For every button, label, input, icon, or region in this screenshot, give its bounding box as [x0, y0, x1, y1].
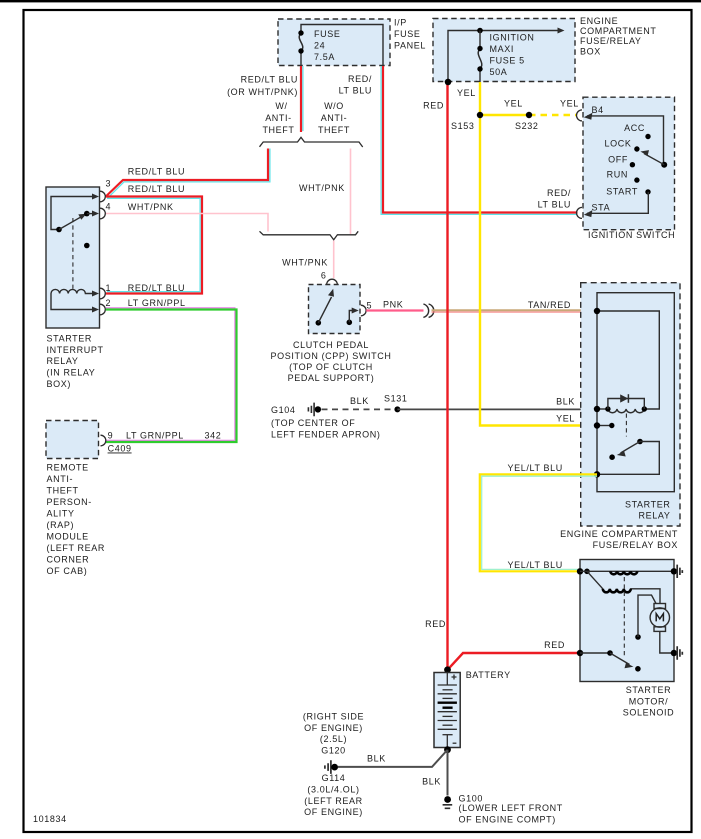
- svg-text:C409: C409: [108, 444, 132, 454]
- wire PNK pin5 to inline connector: [366, 309, 423, 311]
- relay BLK stub: [597, 408, 608, 410]
- svg-text:ANTI-: ANTI-: [47, 474, 74, 484]
- svg-text:ANTI-: ANTI-: [321, 113, 348, 123]
- B4 feed wire: [587, 116, 664, 162]
- wire LT GRN/PPL pin2 to RAP pin9: [106, 308, 235, 441]
- node S153 (yellow tap): [480, 114, 529, 116]
- battery: [444, 666, 451, 673]
- wire BLK battery to G100: [447, 750, 449, 796]
- top page rule: [0, 0, 701, 2]
- wire WHT/PNK w/o branch: [350, 149, 352, 235]
- internal feed wire with arrow: [448, 31, 560, 83]
- svg-text:STARTER: STARTER: [625, 500, 671, 510]
- wire YEL fuse5 to starter relay: [480, 82, 597, 426]
- node S153 top (red exit): [445, 79, 451, 85]
- svg-text:PNK: PNK: [383, 300, 403, 310]
- relay output path: [597, 442, 659, 475]
- CPP pin5 contact: [347, 320, 353, 326]
- svg-text:LEFT FENDER APRON): LEFT FENDER APRON): [271, 430, 381, 440]
- svg-text:B4: B4: [592, 105, 604, 115]
- svg-text:FUSE/RELAY: FUSE/RELAY: [580, 36, 642, 46]
- RAP module box: [46, 421, 99, 459]
- START to STA wire: [587, 192, 648, 213]
- svg-text:STARTER: STARTER: [47, 333, 93, 343]
- svg-text:MAXI: MAXI: [490, 44, 514, 54]
- stray contact node: [84, 243, 90, 249]
- svg-text:COMPARTMENT: COMPARTMENT: [580, 26, 657, 36]
- solenoid contact wire to motor: [635, 634, 641, 640]
- svg-text:FUSE: FUSE: [394, 29, 420, 39]
- svg-text:RED: RED: [425, 619, 446, 629]
- fuse 24 leads: [301, 25, 383, 66]
- svg-text:(LEFT REAR: (LEFT REAR: [304, 796, 363, 806]
- svg-text:STA: STA: [592, 203, 611, 213]
- svg-text:SOLENOID: SOLENOID: [623, 708, 674, 718]
- svg-text:RED/LT BLU: RED/LT BLU: [128, 283, 185, 293]
- relay movable arm: [56, 227, 62, 233]
- svg-text:LOCK: LOCK: [605, 139, 632, 149]
- wire BLK S131 to starter relay: [397, 408, 597, 410]
- svg-text:RED/LT BLU: RED/LT BLU: [241, 75, 298, 85]
- svg-text:G120: G120: [321, 745, 346, 755]
- svg-text:RED: RED: [423, 100, 444, 110]
- position RUN: [634, 177, 639, 182]
- svg-text:OF CAB): OF CAB): [47, 566, 88, 576]
- svg-text:2: 2: [106, 298, 112, 308]
- wire RED fuse24 to brace (RED/LT BLU): [302, 66, 304, 131]
- svg-text:FUSE: FUSE: [314, 29, 340, 39]
- wire RED fuse panel right to STA (RED/ LT BLU): [381, 66, 577, 214]
- svg-text:PANEL: PANEL: [394, 41, 426, 51]
- svg-text:BLK: BLK: [556, 397, 575, 407]
- svg-text:ENGINE COMPARTMENT: ENGINE COMPARTMENT: [560, 529, 678, 539]
- svg-text:RED/LT BLU: RED/LT BLU: [128, 167, 185, 177]
- relay feed TAN/RED path: [597, 311, 659, 409]
- svg-text:IGNITION: IGNITION: [490, 32, 535, 42]
- svg-text:(IN RELAY: (IN RELAY: [47, 368, 96, 378]
- starter interrupt relay box: [46, 187, 100, 328]
- case ground top: [677, 565, 682, 578]
- svg-text:PERSON-: PERSON-: [47, 497, 92, 507]
- ignition switch box: [583, 97, 675, 230]
- svg-text:S153: S153: [451, 121, 475, 131]
- battery plus: [452, 675, 457, 680]
- position START: [645, 189, 650, 194]
- wire RED S153 to battery and starter: [448, 82, 579, 670]
- svg-text:CORNER: CORNER: [47, 554, 90, 564]
- relay coil: [51, 289, 96, 293]
- svg-text:YEL/LT BLU: YEL/LT BLU: [508, 560, 563, 570]
- svg-text:S131: S131: [384, 394, 408, 404]
- svg-text:YEL: YEL: [560, 99, 579, 109]
- starter relay box: [597, 293, 674, 492]
- motor M: [654, 604, 666, 609]
- svg-text:S232: S232: [515, 121, 539, 131]
- relay mechanical link: [625, 414, 627, 437]
- ground G114/G120: [325, 760, 331, 774]
- node: red exit of fuse box: [445, 79, 451, 85]
- svg-text:(OR WHT/PNK): (OR WHT/PNK): [227, 87, 298, 97]
- node S131: [394, 406, 400, 412]
- svg-text:(TOP OF CLUTCH: (TOP OF CLUTCH: [289, 362, 373, 372]
- svg-text:POSITION (CPP) SWITCH: POSITION (CPP) SWITCH: [270, 351, 391, 361]
- svg-text:BOX: BOX: [580, 46, 601, 56]
- svg-text:MOTOR/: MOTOR/: [629, 696, 669, 706]
- CPP switch arm: [316, 320, 322, 326]
- relay YEL stub: [597, 425, 612, 427]
- wire RED w/anti-theft branch to relay pin 3: [108, 149, 270, 199]
- svg-text:(LEFT REAR: (LEFT REAR: [47, 543, 106, 553]
- svg-text:OF ENGINE): OF ENGINE): [304, 723, 363, 733]
- svg-text:3: 3: [106, 179, 112, 189]
- pin 9 connector: [101, 435, 106, 446]
- svg-text:FUSE/RELAY BOX: FUSE/RELAY BOX: [593, 540, 678, 550]
- engine compartment fuse/relay box (top): [433, 19, 575, 82]
- junction on feed: [477, 28, 483, 34]
- fuse 5 leads: [479, 31, 481, 83]
- pin 4 connector: [100, 208, 105, 219]
- svg-text:(LOWER LEFT FRONT: (LOWER LEFT FRONT: [459, 803, 563, 813]
- svg-text:BOX): BOX): [47, 379, 71, 389]
- svg-text:101834: 101834: [33, 814, 67, 824]
- svg-text:BATTERY: BATTERY: [466, 670, 511, 680]
- case ground bottom: [677, 646, 682, 659]
- mechanical link: [72, 218, 74, 289]
- wire TAN/RED to starter relay: [432, 309, 598, 311]
- solenoid pull-in winding: [587, 571, 603, 589]
- svg-text:ANTI-: ANTI-: [265, 113, 292, 123]
- svg-text:G114: G114: [322, 773, 346, 783]
- connector B4: [577, 110, 583, 121]
- relay switch: [637, 439, 643, 445]
- svg-text:RED: RED: [544, 640, 565, 650]
- svg-text:YEL: YEL: [556, 414, 575, 424]
- svg-text:6: 6: [321, 271, 327, 281]
- relay clamp diode: [608, 399, 644, 410]
- relay contact feed pin3: [51, 197, 96, 230]
- svg-text:9: 9: [108, 431, 114, 441]
- pin 2 connector: [100, 304, 105, 315]
- svg-text:LT GRN/PPL: LT GRN/PPL: [128, 298, 186, 308]
- svg-text:PEDAL SUPPORT): PEDAL SUPPORT): [288, 373, 375, 383]
- svg-text:STARTER: STARTER: [626, 685, 672, 695]
- svg-text:5: 5: [367, 301, 373, 311]
- svg-text:1: 1: [106, 283, 112, 293]
- motor to case ground: [660, 631, 674, 653]
- pin 6 connector: [327, 279, 338, 284]
- engine compartment fuse/relay box (starter relay, dashed): [581, 283, 680, 526]
- inline connector pair: [423, 304, 433, 317]
- svg-text:MODULE: MODULE: [47, 531, 89, 541]
- svg-text:ALITY: ALITY: [47, 508, 75, 518]
- arm to pin4: [87, 213, 96, 215]
- svg-text:OFF: OFF: [608, 155, 628, 165]
- svg-text:YEL: YEL: [457, 88, 476, 98]
- svg-text:RELAY: RELAY: [47, 356, 79, 366]
- svg-text:BLK: BLK: [367, 754, 386, 764]
- battery cells: [446, 673, 448, 685]
- svg-text:7.5A: 7.5A: [314, 52, 335, 62]
- svg-text:LT BLU: LT BLU: [538, 200, 571, 210]
- wire WHT/PNK merged to CPP pin 6: [333, 241, 335, 279]
- node S232: [526, 112, 532, 118]
- svg-text:OF ENGINE COMPT): OF ENGINE COMPT): [459, 814, 556, 824]
- solenoid feed node: [577, 568, 583, 574]
- svg-text:THEFT: THEFT: [318, 125, 350, 135]
- svg-text:W/O: W/O: [324, 101, 344, 111]
- ignition maxi fuse 5 symbol: [478, 49, 482, 69]
- svg-text:TAN/RED: TAN/RED: [528, 300, 571, 310]
- svg-text:342: 342: [205, 431, 222, 441]
- pin 3 connector: [100, 191, 105, 202]
- svg-text:W/: W/: [275, 101, 287, 111]
- ground G100: [444, 796, 451, 803]
- relay coil: [608, 409, 644, 413]
- svg-text:(3.0L/4.OL): (3.0L/4.OL): [307, 784, 359, 794]
- wire BLK battery to G114: [338, 750, 447, 767]
- svg-text:LT GRN/PPL: LT GRN/PPL: [126, 431, 184, 441]
- svg-text:(RAP): (RAP): [47, 520, 75, 530]
- solenoid mechanical link: [623, 577, 625, 658]
- I/P fuse panel box: [278, 19, 390, 66]
- svg-text:50A: 50A: [490, 67, 508, 77]
- svg-text:YEL: YEL: [504, 99, 523, 109]
- battery minus: [453, 742, 457, 744]
- svg-text:(2.5L): (2.5L): [320, 734, 347, 744]
- svg-text:RED/: RED/: [348, 74, 372, 84]
- solenoid hold-in winding wire to case ground: [580, 570, 674, 572]
- svg-text:WHT/PNK: WHT/PNK: [299, 183, 345, 193]
- svg-text:YEL/LT BLU: YEL/LT BLU: [508, 463, 563, 473]
- wire RED loop pin 3 to pin 1: [107, 198, 200, 291]
- svg-text:WHT/PNK: WHT/PNK: [282, 258, 328, 268]
- svg-text:IGNITION SWITCH: IGNITION SWITCH: [588, 230, 675, 240]
- fuse 24 symbol: [299, 34, 303, 51]
- svg-text:INTERRUPT: INTERRUPT: [47, 345, 104, 355]
- svg-text:I/P: I/P: [394, 18, 407, 28]
- wire WHT/PNK pin4 to merge brace: [106, 214, 268, 232]
- svg-text:RELAY: RELAY: [639, 510, 671, 520]
- svg-text:THEFT: THEFT: [262, 125, 294, 135]
- svg-text:FUSE 5: FUSE 5: [490, 55, 525, 65]
- solenoid switch: [577, 650, 583, 656]
- svg-text:THEFT: THEFT: [47, 485, 79, 495]
- svg-text:24: 24: [314, 41, 325, 51]
- connector STA: [577, 207, 583, 218]
- pin 1 connector: [100, 288, 105, 299]
- ignition switch arm: [661, 162, 667, 168]
- CPP switch box: [309, 285, 361, 334]
- svg-text:G104: G104: [271, 405, 296, 415]
- svg-text:CLUTCH PEDAL: CLUTCH PEDAL: [293, 340, 369, 350]
- svg-text:ENGINE: ENGINE: [580, 16, 618, 26]
- svg-text:(RIGHT SIDE: (RIGHT SIDE: [303, 711, 364, 721]
- svg-text:LT BLU: LT BLU: [339, 86, 372, 96]
- wire YEL/LT BLU relay to starter motor: [482, 476, 597, 569]
- wire BLK G104 to S131 (dashed): [322, 408, 395, 410]
- brace bottom (branch merge): [260, 231, 359, 240]
- svg-text:REMOTE: REMOTE: [47, 462, 89, 472]
- position LOCK: [634, 146, 639, 151]
- svg-text:BLK: BLK: [350, 396, 369, 406]
- position OFF: [630, 162, 635, 167]
- svg-text:RUN: RUN: [607, 170, 628, 180]
- svg-text:ACC: ACC: [624, 123, 645, 133]
- svg-text:RED/LT BLU: RED/LT BLU: [128, 184, 185, 194]
- coil to pin2: [51, 294, 96, 310]
- svg-text:4: 4: [106, 202, 112, 212]
- pin 5 connector: [361, 305, 366, 316]
- brace top (branch split): [260, 137, 363, 147]
- svg-text:(TOP CENTER OF: (TOP CENTER OF: [271, 418, 355, 428]
- svg-text:BLK: BLK: [422, 777, 441, 787]
- svg-text:WHT/PNK: WHT/PNK: [128, 202, 174, 212]
- starter motor/solenoid box: [580, 560, 674, 682]
- svg-text:OF ENGINE): OF ENGINE): [304, 807, 363, 817]
- svg-text:START: START: [606, 187, 638, 197]
- position ACC: [645, 134, 650, 139]
- svg-text:RED/: RED/: [547, 188, 571, 198]
